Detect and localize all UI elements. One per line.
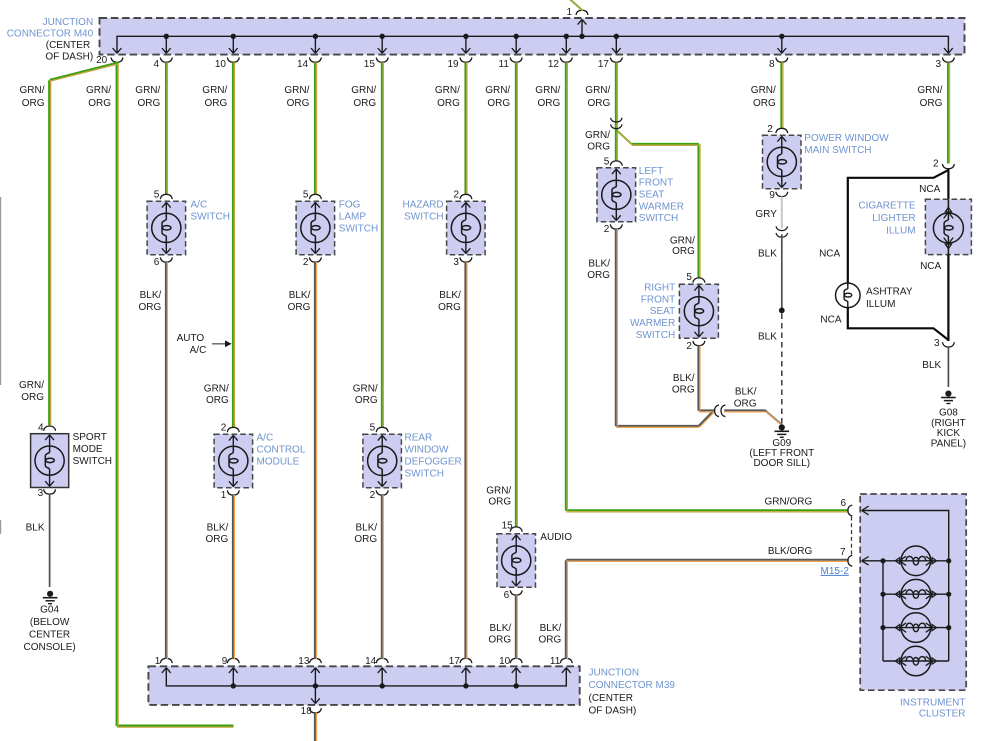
svg-text:ASHTRAY: ASHTRAY <box>866 287 913 298</box>
svg-text:ORG: ORG <box>288 302 311 313</box>
svg-text:2: 2 <box>686 341 692 352</box>
svg-text:SWITCH: SWITCH <box>405 469 444 480</box>
svg-text:(CENTER: (CENTER <box>589 693 633 704</box>
svg-text:2: 2 <box>370 490 376 501</box>
svg-text:NCA: NCA <box>919 184 940 195</box>
svg-text:14: 14 <box>297 59 309 70</box>
svg-text:18: 18 <box>301 706 313 717</box>
svg-text:2: 2 <box>303 257 309 268</box>
svg-text:GRN/: GRN/ <box>485 85 510 96</box>
svg-text:ORG: ORG <box>354 534 377 545</box>
svg-text:CIGARETTE: CIGARETTE <box>858 201 916 212</box>
svg-text:ORG: ORG <box>287 98 310 109</box>
svg-text:GRN/: GRN/ <box>917 85 942 96</box>
svg-text:(BELOW: (BELOW <box>30 617 70 628</box>
svg-text:ORG: ORG <box>488 634 511 645</box>
svg-text:GRN/: GRN/ <box>202 85 227 96</box>
svg-text:GRY: GRY <box>755 209 777 220</box>
svg-text:GRN/: GRN/ <box>204 383 229 394</box>
svg-text:GRN/: GRN/ <box>20 85 45 96</box>
svg-text:8: 8 <box>769 59 775 70</box>
svg-text:GRN/: GRN/ <box>670 236 695 247</box>
svg-text:GRN/: GRN/ <box>351 85 376 96</box>
svg-text:GRN/: GRN/ <box>353 383 378 394</box>
svg-text:19: 19 <box>447 59 459 70</box>
svg-text:RIGHT: RIGHT <box>644 282 675 293</box>
svg-text:ORG: ORG <box>672 246 695 257</box>
svg-text:ORG: ORG <box>205 98 228 109</box>
svg-text:ORG: ORG <box>88 98 111 109</box>
svg-text:BLK: BLK <box>26 523 45 534</box>
svg-text:10: 10 <box>499 656 511 667</box>
svg-text:2: 2 <box>221 423 227 434</box>
svg-text:9: 9 <box>769 190 775 201</box>
svg-text:BLK/: BLK/ <box>289 290 311 301</box>
svg-text:ORG: ORG <box>538 98 561 109</box>
svg-text:BLK/: BLK/ <box>490 623 512 634</box>
svg-text:(CENTER: (CENTER <box>46 40 90 51</box>
svg-text:LEFT: LEFT <box>639 166 663 177</box>
svg-text:GRN/ORG: GRN/ORG <box>765 497 813 508</box>
svg-text:GRN/: GRN/ <box>751 85 776 96</box>
svg-text:ORG: ORG <box>587 270 610 281</box>
svg-text:BLK/: BLK/ <box>735 387 757 398</box>
svg-text:GRN/: GRN/ <box>435 85 460 96</box>
svg-text:5: 5 <box>686 272 692 283</box>
svg-text:17: 17 <box>449 656 461 667</box>
svg-text:MODULE: MODULE <box>257 457 300 468</box>
svg-text:ORG: ORG <box>920 98 943 109</box>
svg-text:GRN/: GRN/ <box>535 85 560 96</box>
svg-text:REAR: REAR <box>405 432 433 443</box>
svg-text:WINDOW: WINDOW <box>405 445 449 456</box>
svg-text:CONTROL: CONTROL <box>257 445 306 456</box>
svg-text:1: 1 <box>566 7 572 18</box>
svg-text:DOOR SILL): DOOR SILL) <box>753 458 810 469</box>
svg-text:LIGHTER: LIGHTER <box>872 213 915 224</box>
svg-text:11: 11 <box>550 656 561 667</box>
svg-text:SEAT: SEAT <box>650 306 675 317</box>
svg-text:9: 9 <box>222 656 228 667</box>
svg-text:ILLUM: ILLUM <box>866 299 895 310</box>
svg-text:5: 5 <box>604 157 610 168</box>
svg-text:ORG: ORG <box>488 496 511 507</box>
svg-text:ORG: ORG <box>587 142 610 153</box>
svg-text:ORG: ORG <box>438 302 461 313</box>
svg-text:BLK/: BLK/ <box>207 523 229 534</box>
svg-text:OF DASH): OF DASH) <box>45 52 93 63</box>
svg-text:3: 3 <box>453 257 459 268</box>
svg-text:SWITCH: SWITCH <box>404 212 443 223</box>
svg-text:CONNECTOR M40: CONNECTOR M40 <box>7 29 94 40</box>
svg-text:OF DASH): OF DASH) <box>589 706 637 717</box>
svg-text:BLK/: BLK/ <box>439 290 461 301</box>
svg-text:ORG: ORG <box>353 98 376 109</box>
svg-text:17: 17 <box>598 59 610 70</box>
svg-text:GRN/: GRN/ <box>284 85 309 96</box>
svg-text:INSTRUMENT: INSTRUMENT <box>900 698 966 709</box>
svg-text:10: 10 <box>215 59 227 70</box>
svg-text:BLK: BLK <box>922 360 941 371</box>
svg-text:GRN/: GRN/ <box>585 130 610 141</box>
svg-text:AUDIO: AUDIO <box>540 532 572 543</box>
svg-text:ORG: ORG <box>355 395 378 406</box>
svg-text:13: 13 <box>298 656 310 667</box>
svg-text:A/C: A/C <box>257 432 274 443</box>
svg-text:5: 5 <box>154 190 160 201</box>
svg-text:ORG: ORG <box>437 98 460 109</box>
svg-text:1: 1 <box>155 656 161 667</box>
svg-text:SWITCH: SWITCH <box>73 456 112 467</box>
svg-text:POWER WINDOW: POWER WINDOW <box>804 133 889 144</box>
svg-text:ORG: ORG <box>539 634 562 645</box>
svg-text:4: 4 <box>38 422 44 433</box>
svg-text:3: 3 <box>38 488 44 499</box>
svg-text:M15-2: M15-2 <box>821 566 850 577</box>
svg-text:WARMER: WARMER <box>630 318 675 329</box>
svg-text:BLK/: BLK/ <box>673 373 695 384</box>
svg-text:ORG: ORG <box>21 392 44 403</box>
svg-text:NCA: NCA <box>820 314 841 325</box>
svg-text:6: 6 <box>840 498 846 509</box>
svg-text:CLUSTER: CLUSTER <box>919 708 966 719</box>
svg-text:ILLUM: ILLUM <box>886 225 915 236</box>
svg-text:DEFOGGER: DEFOGGER <box>405 457 462 468</box>
svg-text:14: 14 <box>365 656 377 667</box>
svg-text:MODE: MODE <box>73 444 103 455</box>
svg-text:HAZARD: HAZARD <box>402 199 443 210</box>
svg-text:BLK/: BLK/ <box>588 258 610 269</box>
svg-text:GRN/: GRN/ <box>486 485 511 496</box>
svg-text:ORG: ORG <box>138 98 161 109</box>
svg-text:BLK/: BLK/ <box>540 623 562 634</box>
svg-text:ORG: ORG <box>22 98 45 109</box>
svg-text:JUNCTION: JUNCTION <box>43 17 94 28</box>
svg-text:12: 12 <box>548 59 560 70</box>
svg-text:NCA: NCA <box>920 261 941 272</box>
svg-text:LAMP: LAMP <box>339 212 367 223</box>
svg-text:ORG: ORG <box>753 98 776 109</box>
svg-text:SWITCH: SWITCH <box>191 212 230 223</box>
svg-text:ORG: ORG <box>588 98 611 109</box>
svg-text:5: 5 <box>303 190 309 201</box>
svg-text:CONNECTOR M39: CONNECTOR M39 <box>589 680 676 691</box>
svg-text:NCA: NCA <box>819 248 840 259</box>
svg-text:ORG: ORG <box>672 385 695 396</box>
svg-text:3: 3 <box>936 59 942 70</box>
svg-text:BLK/: BLK/ <box>356 523 378 534</box>
svg-text:A/C: A/C <box>190 345 207 356</box>
svg-text:MAIN SWITCH: MAIN SWITCH <box>804 145 871 156</box>
svg-text:GRN/: GRN/ <box>135 85 160 96</box>
svg-text:7: 7 <box>840 547 846 558</box>
svg-text:GRN/: GRN/ <box>86 85 111 96</box>
svg-text:2: 2 <box>604 224 610 235</box>
svg-text:ORG: ORG <box>734 399 757 410</box>
svg-text:PANEL): PANEL) <box>931 438 966 449</box>
svg-text:1: 1 <box>221 490 227 501</box>
svg-text:15: 15 <box>364 59 376 70</box>
svg-text:JUNCTION: JUNCTION <box>589 668 640 679</box>
svg-text:GRN/: GRN/ <box>19 380 44 391</box>
svg-text:FOG: FOG <box>339 199 361 210</box>
svg-text:A/C: A/C <box>191 199 208 210</box>
svg-text:SWITCH: SWITCH <box>639 213 678 224</box>
svg-text:11: 11 <box>499 59 510 70</box>
svg-text:2: 2 <box>767 124 773 135</box>
svg-text:ORG: ORG <box>206 534 229 545</box>
svg-text:SEAT: SEAT <box>639 190 664 201</box>
svg-text:ORG: ORG <box>139 302 162 313</box>
svg-text:BLK/ORG: BLK/ORG <box>768 546 813 557</box>
svg-text:FRONT: FRONT <box>641 294 675 305</box>
svg-text:G04: G04 <box>40 605 59 616</box>
svg-text:BLK/: BLK/ <box>140 290 162 301</box>
svg-text:SWITCH: SWITCH <box>636 330 675 341</box>
svg-text:ORG: ORG <box>206 395 229 406</box>
svg-text:WARMER: WARMER <box>639 201 684 212</box>
svg-text:SPORT: SPORT <box>73 432 107 443</box>
svg-text:6: 6 <box>504 590 510 601</box>
svg-text:BLK: BLK <box>758 332 777 343</box>
svg-text:2: 2 <box>453 190 459 201</box>
svg-text:4: 4 <box>153 59 159 70</box>
svg-text:ORG: ORG <box>487 98 510 109</box>
svg-text:FRONT: FRONT <box>639 178 673 189</box>
svg-text:2: 2 <box>933 159 939 170</box>
svg-text:6: 6 <box>154 257 160 268</box>
svg-text:CONSOLE): CONSOLE) <box>23 642 75 653</box>
svg-text:3: 3 <box>934 338 940 349</box>
svg-text:BLK: BLK <box>758 248 777 259</box>
svg-text:CENTER: CENTER <box>29 630 70 641</box>
svg-text:SWITCH: SWITCH <box>339 224 378 235</box>
svg-text:5: 5 <box>370 423 376 434</box>
svg-text:GRN/: GRN/ <box>585 85 610 96</box>
svg-text:AUTO: AUTO <box>177 333 205 344</box>
